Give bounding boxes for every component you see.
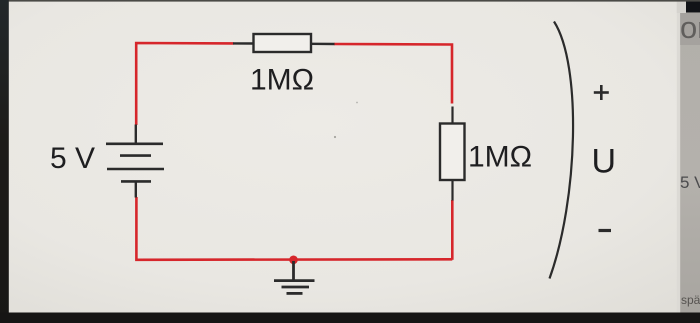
- dust speck: [356, 102, 358, 104]
- right strip: black header box: [686, 0, 700, 13]
- svg-text:on: on: [680, 10, 700, 45]
- wire: right lower red segment below resistor R2: [451, 200, 454, 260]
- battery V1: plate short: [120, 154, 151, 157]
- battery V1: plate short bottom: [121, 180, 151, 183]
- right strip edge light sliver: [677, 0, 680, 323]
- svg-text:5 V: 5 V: [50, 142, 95, 175]
- right strip: gray button with clipped text: [680, 13, 700, 45]
- wire: black lead above resistor R2: [451, 107, 453, 125]
- ground symbol: stem: [292, 261, 295, 280]
- dust speck: [334, 136, 336, 138]
- plus sign of U: [594, 91, 609, 94]
- ground symbol: bar 3: [287, 292, 303, 295]
- minus sign of U: [599, 229, 612, 232]
- left dark bar: [0, 0, 9, 323]
- resistor R2 body: [440, 124, 465, 181]
- right strip: light top sliver: [677, 0, 686, 13]
- brace: voltage measurement arc: [550, 22, 574, 279]
- resistor R1 body: [254, 34, 312, 52]
- wire: black lead below resistor R2: [451, 180, 453, 201]
- wire: black lead left of resistor R1: [233, 42, 254, 44]
- battery V1: top lead: [135, 125, 137, 144]
- bottom dark bar: [0, 313, 700, 323]
- ground symbol: bar 2: [282, 286, 310, 289]
- svg-text:spä: spä: [681, 293, 700, 307]
- top edge dark line: [0, 0, 700, 2]
- battery V1: bottom lead: [135, 181, 137, 197]
- svg-text:1MΩ: 1MΩ: [468, 141, 532, 174]
- battery V1: plate long bottom: [107, 168, 164, 171]
- battery V1: plate long top: [106, 143, 163, 146]
- ground symbol: bar 1: [274, 279, 315, 282]
- wire: top run, red, from top-left corner to top-right corner: [136, 43, 233, 125]
- wire: black lead right of resistor R1: [311, 43, 335, 46]
- svg-text:1MΩ: 1MΩ: [250, 64, 314, 97]
- node: junction dot on bottom wire: [289, 255, 298, 264]
- wire: bottom run, red: [136, 197, 452, 260]
- svg-text:U: U: [592, 142, 617, 180]
- wire: top right red segment after resistor R1: [334, 44, 452, 104]
- svg-text:5 V: 5 V: [680, 173, 700, 192]
- right app strip background: [679, 0, 700, 323]
